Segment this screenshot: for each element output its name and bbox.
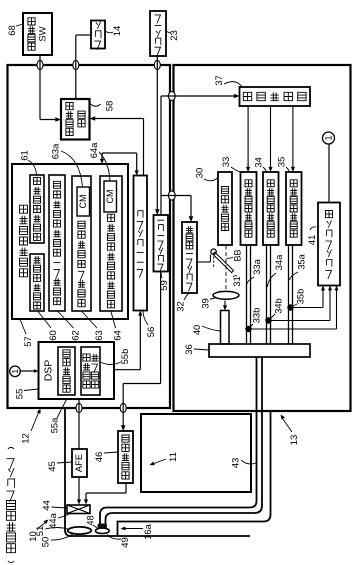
system label (electronic endoscope system) bbox=[8, 561, 14, 563]
jump on box12 bottom edge (AFE wire) bbox=[76, 403, 82, 412]
svg-text:46: 46 bbox=[94, 452, 105, 463]
fiber 35a double line bbox=[288, 245, 290, 344]
svg-text:14: 14 bbox=[112, 26, 123, 37]
svg-text:41: 41 bbox=[307, 235, 318, 246]
svg-text:55a: 55a bbox=[50, 417, 60, 433]
junction dot 34b bbox=[265, 317, 271, 323]
svg-text:64a: 64a bbox=[89, 142, 99, 158]
processor device box 12 bbox=[8, 65, 171, 408]
color map box 63a bbox=[77, 187, 90, 216]
light guide end ferrule bbox=[98, 524, 108, 529]
frame memory box 56 bbox=[134, 176, 148, 311]
svg-text:32: 32 bbox=[176, 301, 187, 312]
DSP box 55 bbox=[39, 342, 115, 399]
connector circle 1 left bbox=[10, 366, 21, 377]
oxygen saturation image generation box 64 bbox=[100, 176, 122, 311]
shutter drive box 32 bbox=[182, 222, 197, 293]
luminance ratio calc box 60 bbox=[30, 254, 44, 311]
broadband fiber 40 bbox=[221, 311, 230, 345]
svg-text:64: 64 bbox=[113, 330, 124, 341]
objective lens 50/51 bbox=[68, 527, 92, 534]
svg-text:36: 36 bbox=[184, 344, 195, 355]
optical axis dashed BB beam bbox=[225, 246, 227, 298]
svg-text:60: 60 bbox=[48, 330, 59, 341]
wire AFE to CCD bbox=[78, 477, 80, 500]
light amount assoc box 55b bbox=[81, 347, 100, 395]
light source device box 13 bbox=[174, 65, 351, 411]
condenser lens 39 bbox=[213, 291, 239, 299]
svg-text:58: 58 bbox=[105, 101, 116, 112]
svg-text:1: 1 bbox=[10, 369, 20, 374]
svg-text:57: 57 bbox=[23, 336, 34, 347]
AFE box 45 bbox=[72, 449, 87, 477]
vessel depth-oxygen saturation calc box 62 bbox=[49, 175, 65, 311]
svg-text:43: 43 bbox=[231, 458, 242, 469]
junction dot 35b bbox=[287, 304, 293, 310]
wire monitor 14 from display control 58 bbox=[76, 34, 91, 36]
svg-text:63a: 63a bbox=[51, 143, 61, 159]
wire controller 59 down to imaging control 46 bbox=[160, 272, 162, 384]
svg-text:AFE: AFE bbox=[74, 454, 85, 472]
svg-text:13: 13 bbox=[289, 435, 300, 446]
wire controller 59 to shutter drive 32 bbox=[161, 195, 191, 197]
3rd narrowband source box 35 bbox=[286, 172, 302, 245]
svg-text:34b: 34b bbox=[274, 298, 284, 314]
svg-text:31: 31 bbox=[232, 276, 243, 287]
svg-text:35b: 35b bbox=[296, 289, 306, 305]
universal cord outline bbox=[118, 412, 271, 536]
wire controller 59 up to light source switching 37 bbox=[160, 96, 162, 215]
wire SW68 to display control 58 bbox=[39, 55, 41, 120]
svg-text:56: 56 bbox=[146, 327, 157, 338]
svg-text:1: 1 bbox=[324, 135, 334, 140]
wire frame memory 56 to display control 58 bbox=[143, 119, 145, 176]
scope tip outline bbox=[65, 408, 250, 536]
vessel depth image generation box 63 bbox=[72, 176, 91, 311]
crossover jump on box12 edge (monitor wire) bbox=[73, 60, 79, 69]
svg-text:33: 33 bbox=[221, 157, 232, 168]
light source switching box 37 bbox=[240, 87, 311, 106]
svg-text:62: 62 bbox=[71, 330, 82, 341]
svg-text:SW: SW bbox=[38, 26, 49, 41]
wire DSP to AFE bbox=[78, 399, 80, 449]
broadband light source box 30 bbox=[218, 172, 232, 245]
color map box 64a bbox=[104, 181, 117, 212]
svg-text:35: 35 bbox=[277, 157, 288, 168]
CCD image sensor 44 (crossed box) bbox=[67, 505, 90, 514]
imaging control box 46 bbox=[118, 431, 133, 483]
svg-text:BB: BB bbox=[233, 249, 243, 261]
jump on box12 bottom edge (controller wire) bbox=[120, 403, 126, 412]
svg-text:50: 50 bbox=[41, 537, 52, 548]
svg-text:45: 45 bbox=[47, 461, 58, 472]
monitor box 14 bbox=[91, 21, 105, 49]
svg-text:40: 40 bbox=[192, 325, 203, 336]
jump on box12/13 boundary at y96 bbox=[168, 91, 175, 100]
svg-text:33a: 33a bbox=[252, 258, 262, 274]
wire 57 to frame memory 56 (bidirectional) bbox=[101, 153, 103, 161]
crossover jump on box12 edge (console wire) bbox=[154, 60, 160, 69]
fiber 33a double line bbox=[246, 245, 248, 344]
svg-text:61: 61 bbox=[20, 150, 31, 161]
svg-text:48: 48 bbox=[86, 515, 96, 525]
svg-text:49: 49 bbox=[120, 537, 131, 548]
svg-text:37: 37 bbox=[214, 75, 225, 86]
crossover jump on box12 edge (SW wire) bbox=[37, 60, 43, 69]
svg-text:34: 34 bbox=[254, 157, 265, 168]
wire 32 to shutter pivot bbox=[197, 261, 210, 263]
svg-text:16a: 16a bbox=[143, 523, 153, 539]
wire 46 to CCD bbox=[125, 483, 127, 493]
correlation storage box 61 bbox=[30, 175, 44, 243]
svg-text:34a: 34a bbox=[274, 254, 284, 270]
shutter alternate position dash-dot bbox=[213, 257, 215, 269]
svg-text:44: 44 bbox=[42, 500, 53, 511]
wire console 23 to controller 59 bbox=[156, 56, 158, 211]
svg-text:55b: 55b bbox=[120, 349, 130, 365]
connector circle 1 right bbox=[323, 132, 335, 144]
junction dot 33b bbox=[245, 326, 251, 332]
wires 37 to sources bbox=[247, 106, 249, 168]
svg-text:23: 23 bbox=[169, 30, 180, 41]
svg-text:63: 63 bbox=[94, 330, 105, 341]
shutter 31 blade (outlined) bbox=[213, 252, 234, 272]
svg-text:35a: 35a bbox=[297, 253, 307, 269]
signal correction box 55a bbox=[58, 347, 75, 395]
coupler bar 36 bbox=[209, 344, 310, 357]
endoscope body box 11 bbox=[141, 414, 251, 492]
2nd narrowband source box 34 bbox=[263, 172, 279, 245]
illumination lens 48 bbox=[95, 528, 109, 533]
wire monitoring unit to connector bbox=[328, 144, 330, 203]
display control circuit box 58 bbox=[61, 99, 90, 140]
arrow lens to fiber 40 bbox=[224, 301, 226, 307]
wires taps to monitoring unit bbox=[291, 307, 324, 309]
controller box 59 bbox=[154, 215, 169, 272]
jump on box12/13 boundary at y195.5 bbox=[168, 191, 175, 200]
fiber 34a double line bbox=[266, 245, 268, 344]
svg-text:68: 68 bbox=[7, 25, 18, 36]
console box 23 bbox=[150, 11, 166, 56]
svg-text:CM: CM bbox=[105, 190, 115, 204]
svg-text:44a: 44a bbox=[48, 512, 58, 528]
svg-text:39: 39 bbox=[201, 298, 212, 309]
svg-text:11: 11 bbox=[168, 452, 179, 462]
monitoring unit box 41 bbox=[318, 203, 340, 286]
light guide 43 from coupler down and left to tip bbox=[100, 357, 257, 524]
svg-text:33b: 33b bbox=[252, 308, 262, 324]
svg-text:10: 10 bbox=[28, 531, 39, 542]
blood vessel image generation unit box 57 bbox=[12, 164, 128, 319]
svg-text:12: 12 bbox=[21, 433, 32, 444]
1st narrowband source box 33 bbox=[241, 172, 257, 245]
svg-text:CM: CM bbox=[78, 195, 88, 209]
shutter 31 pivot bbox=[211, 249, 216, 254]
wire DSP 55 to frame memory 56 bbox=[114, 369, 140, 371]
image switch SW box 68 bbox=[23, 13, 52, 55]
svg-text:30: 30 bbox=[195, 168, 206, 179]
svg-text:DSP: DSP bbox=[43, 360, 55, 382]
svg-text:55: 55 bbox=[15, 389, 26, 400]
